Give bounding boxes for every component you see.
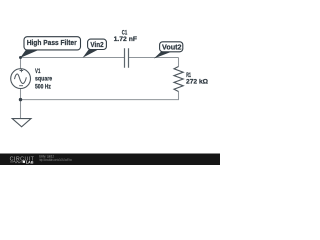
svg-text:1.72 nF: 1.72 nF — [114, 36, 137, 43]
svg-text:LAB: LAB — [26, 159, 34, 164]
svg-text:Vout2: Vout2 — [162, 42, 182, 51]
svg-text:272 kΩ: 272 kΩ — [186, 78, 209, 85]
svg-text:Vin2: Vin2 — [90, 40, 103, 49]
svg-text:500 Hz: 500 Hz — [35, 84, 51, 91]
svg-text:High Pass Filter: High Pass Filter — [27, 38, 77, 47]
svg-text:V1: V1 — [35, 68, 41, 75]
svg-text:http://circuitlab.com/c3d7c2cc: http://circuitlab.com/c3d7c2cc97ea — [39, 158, 72, 162]
svg-text:square: square — [35, 75, 52, 82]
